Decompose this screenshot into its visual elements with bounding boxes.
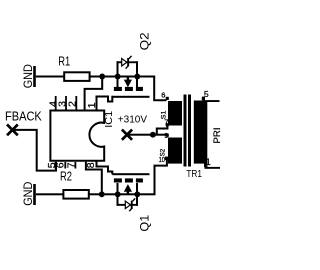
winding S1: [168, 101, 182, 126]
node junction dot R2/pin8: [99, 191, 105, 197]
svg-text:5: 5: [204, 89, 209, 99]
svg-text:1: 1: [86, 102, 98, 108]
core: [184, 95, 187, 167]
wire junction to TR1 pin 7: [157, 126, 168, 134]
diode D2 (body diode of Q2): [117, 56, 139, 77]
node FBACK: [5, 110, 42, 136]
transistor Q1 (N-MOSFET, low side): [112, 173, 151, 231]
node junction dot Q1 drain: [115, 191, 121, 197]
op-amp IC1 (driver IC, DIP-8 outline with notch): [50, 110, 115, 160]
svg-text:1: 1: [206, 157, 211, 167]
ground GND1 (top left): [22, 64, 36, 88]
wire GND1 to R1: [36, 76, 64, 78]
svg-text:TR1: TR1: [186, 168, 202, 180]
svg-text:+310V: +310V: [118, 114, 148, 125]
wire junction down-left to IC1 pin 1: [85, 77, 103, 111]
pin 7: [66, 162, 78, 169]
transformer TR1: [159, 89, 222, 180]
svg-text:PRI: PRI: [212, 128, 222, 144]
wire GND2 to R2: [36, 193, 64, 195]
pin 1: [204, 164, 207, 168]
wire IC1 pin 8 to R2 junction: [86, 162, 102, 195]
pin 2: [67, 96, 79, 110]
node junction dot +310V: [150, 132, 156, 138]
pin 3: [57, 96, 69, 110]
pin 9: [166, 134, 169, 137]
ground GND2 (bottom left): [22, 182, 36, 206]
svg-text:6: 6: [161, 90, 165, 99]
wire Q2 drain to TR1 pin 6: [154, 77, 166, 100]
node +310V: [118, 114, 148, 139]
node junction dot at R1/IC1 pin1: [99, 74, 105, 80]
wire R1 right to Q2 drain bend: [90, 76, 155, 78]
svg-text:FBACK: FBACK: [5, 110, 42, 124]
pin 6: [166, 97, 169, 100]
node junction dot Q1 source: [134, 191, 140, 197]
svg-text:IC1: IC1: [104, 110, 115, 127]
svg-text:R2: R2: [60, 169, 72, 183]
node junction dot Q2 source: [115, 74, 121, 80]
winding PRI: [194, 101, 208, 164]
pin 10: [165, 157, 168, 161]
pin 5: [202, 97, 205, 101]
wire Q1 to TR1 pin 10: [155, 160, 167, 194]
svg-text:9: 9: [164, 131, 168, 140]
diode D1 (body diode of Q1): [117, 194, 139, 211]
wire Q2 gate to IC1: [97, 96, 113, 111]
svg-text:R1: R1: [58, 54, 70, 68]
wire R2 right to Q1 and TR1 pin 10: [89, 193, 155, 195]
resistor R1: [58, 54, 89, 81]
pin 7: [166, 123, 169, 126]
node junction dot Q2 drain: [134, 74, 140, 80]
svg-text:Q2: Q2: [138, 32, 152, 50]
pin 4: [47, 96, 59, 110]
wire +310V to TR1 pin 9: [129, 134, 167, 136]
wire stub TR1 pin 1: [205, 167, 221, 169]
svg-text:Q1: Q1: [138, 214, 152, 231]
wire stub TR1 pin 5: [203, 100, 220, 102]
svg-text:7: 7: [164, 118, 168, 127]
svg-text:10: 10: [159, 155, 165, 164]
resistor R2: [60, 169, 89, 198]
wire FBACK to IC1 pin 5: [15, 130, 57, 171]
pin 6: [54, 162, 66, 169]
wire Q1 gate to IC1: [97, 161, 113, 174]
transistor Q2 (N-MOSFET, high side): [112, 32, 151, 98]
pin 5: [46, 162, 58, 169]
winding S2: [168, 138, 182, 164]
